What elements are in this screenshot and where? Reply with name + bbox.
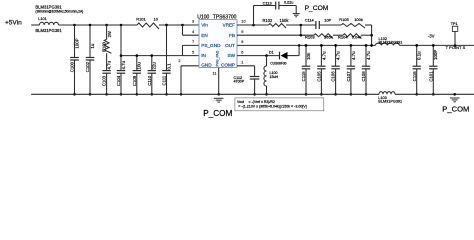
svg-text:IN: IN xyxy=(201,53,206,58)
svg-text:T POINT S: T POINT S xyxy=(446,45,466,50)
svg-text:(390ohm@100MHz,50mohm,2A): (390ohm@100MHz,50mohm,2A) xyxy=(35,10,83,14)
svg-text:9: 9 xyxy=(241,29,243,34)
svg-text:0.22u: 0.22u xyxy=(284,0,294,4)
svg-text:C115: C115 xyxy=(301,71,306,82)
svg-text:6: 6 xyxy=(241,49,243,54)
svg-text:TP1: TP1 xyxy=(451,22,458,26)
svg-text:4700P: 4700P xyxy=(234,80,245,84)
svg-text:Vin: Vin xyxy=(201,23,208,28)
svg-text:+5Vin: +5Vin xyxy=(5,20,22,27)
svg-text:-3V: -3V xyxy=(428,34,435,39)
svg-text:2: 2 xyxy=(178,58,180,63)
svg-text:10P: 10P xyxy=(324,17,331,22)
svg-text:100k: 100k xyxy=(354,17,363,22)
svg-text:C114: C114 xyxy=(305,18,315,23)
svg-text:P_COM: P_COM xyxy=(305,5,329,12)
svg-text:4.7u: 4.7u xyxy=(321,51,326,60)
svg-text:10u: 10u xyxy=(137,62,142,70)
svg-text:C100: C100 xyxy=(70,61,75,72)
svg-text:C113: C113 xyxy=(263,0,272,5)
svg-text:D1: D1 xyxy=(269,50,274,54)
svg-text:5: 5 xyxy=(192,49,194,54)
svg-text:11: 11 xyxy=(212,71,216,76)
svg-text:P_COM: P_COM xyxy=(442,105,469,114)
svg-text:150k: 150k xyxy=(280,18,290,23)
svg-text:C108: C108 xyxy=(361,71,366,82)
svg-text:10n: 10n xyxy=(306,52,311,60)
svg-text:R104: R104 xyxy=(338,35,348,40)
svg-text:100P: 100P xyxy=(433,50,438,60)
svg-text:C111: C111 xyxy=(162,75,167,85)
svg-text:8: 8 xyxy=(241,39,243,44)
svg-text:EN: EN xyxy=(201,33,208,38)
svg-text:BLM31PG391: BLM31PG391 xyxy=(378,99,402,103)
svg-text:SW: SW xyxy=(227,53,235,58)
svg-text:C106: C106 xyxy=(331,71,336,82)
svg-text:Vout: Vout xyxy=(237,100,244,104)
svg-text:4.7u: 4.7u xyxy=(121,60,126,69)
svg-text:4.7u: 4.7u xyxy=(107,60,112,69)
svg-text:10: 10 xyxy=(241,19,246,24)
svg-text:R103: R103 xyxy=(305,35,315,40)
svg-text:= -(1.213V x (365k+6.04k))/150: = -(1.213V x (365k+6.04k))/150k = -3.00[… xyxy=(238,105,306,109)
svg-text:C103: C103 xyxy=(102,75,107,86)
svg-text:4: 4 xyxy=(192,29,195,34)
svg-text:TPS63700: TPS63700 xyxy=(213,14,237,20)
svg-text:365k: 365k xyxy=(324,35,333,40)
svg-text:3: 3 xyxy=(192,19,194,24)
svg-text:0.1u: 0.1u xyxy=(417,51,422,60)
svg-text:2W: 2W xyxy=(107,31,112,37)
svg-text:4.7u: 4.7u xyxy=(351,51,356,60)
svg-text:COMP: COMP xyxy=(221,63,235,68)
svg-text:0.1: 0.1 xyxy=(166,63,171,70)
svg-text:22u: 22u xyxy=(152,62,157,70)
svg-text:C107: C107 xyxy=(346,71,351,82)
svg-text:4.7u: 4.7u xyxy=(366,51,371,60)
svg-text:C110: C110 xyxy=(147,75,152,86)
svg-text:C101: C101 xyxy=(428,71,433,82)
svg-text:P_COM: P_COM xyxy=(203,109,232,118)
svg-text:PS_GND: PS_GND xyxy=(201,43,221,48)
svg-text:R100: R100 xyxy=(102,41,107,52)
svg-text:6.04k: 6.04k xyxy=(352,35,362,40)
svg-text:100P: 100P xyxy=(74,38,79,48)
svg-text:R102: R102 xyxy=(263,18,274,23)
svg-text:1u: 1u xyxy=(90,43,95,48)
svg-text:C102: C102 xyxy=(85,61,90,72)
svg-text:OUT: OUT xyxy=(225,43,235,48)
svg-text:VREF: VREF xyxy=(222,23,235,28)
svg-text:C116: C116 xyxy=(412,71,417,82)
svg-text:L101: L101 xyxy=(38,17,46,21)
svg-text:C104: C104 xyxy=(116,75,121,86)
svg-text:= -(Vref x R3)/R2: = -(Vref x R3)/R2 xyxy=(249,100,275,104)
svg-text:10: 10 xyxy=(154,16,159,21)
svg-text:BLM31PG391: BLM31PG391 xyxy=(35,28,62,33)
svg-text:FB: FB xyxy=(229,33,235,38)
svg-text:U100: U100 xyxy=(197,14,209,20)
svg-text:BLM31PG391: BLM31PG391 xyxy=(379,41,403,45)
svg-text:15uH: 15uH xyxy=(270,75,279,79)
svg-text:C105: C105 xyxy=(317,71,322,82)
svg-text:7: 7 xyxy=(192,39,194,44)
svg-text:R105: R105 xyxy=(339,17,349,22)
svg-text:1: 1 xyxy=(241,60,243,65)
svg-text:R101: R101 xyxy=(136,16,146,21)
svg-text:GND: GND xyxy=(201,63,212,68)
svg-text:4.7u: 4.7u xyxy=(336,51,341,60)
svg-text:C109: C109 xyxy=(132,75,137,86)
svg-text:PVG_PAD: PVG_PAD xyxy=(215,50,219,66)
svg-text:CUS08F30: CUS08F30 xyxy=(270,62,286,66)
